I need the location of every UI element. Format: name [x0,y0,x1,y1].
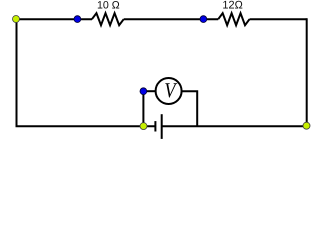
node bottom-right (yellow) [303,122,310,129]
wire top-left to resistor R1 [16,18,92,20]
wire voltmeter left lead [143,90,155,92]
wire battery to bottom-right corner [162,125,307,127]
resistor R1 zigzag [92,13,124,25]
resistor R2 zigzag [218,13,249,25]
wire right side vertical [306,18,308,126]
battery B1 long plate [161,114,163,139]
wire voltmeter right lead [182,91,198,126]
node on top wire before R1 (blue) [74,16,81,23]
wire left side vertical [16,19,18,126]
node voltmeter top (blue) [140,88,147,95]
voltmeter V body [156,78,182,104]
node bottom-middle (yellow) [140,123,147,130]
wire between R1 and R2 [124,18,219,20]
wire R2 to top-right corner [250,18,307,20]
label 10 Ohm for R1 [98,1,119,9]
label 12 Ohm for R2 [223,1,242,9]
node top-left (yellow) [13,16,20,23]
wire bottom-left to battery [16,125,156,127]
wire voltmeter branch vertical (node to bottom node) [142,91,144,126]
battery B1 short plate [154,121,156,131]
node on top wire before R2 (blue) [200,16,207,23]
voltmeter V label [165,83,177,97]
